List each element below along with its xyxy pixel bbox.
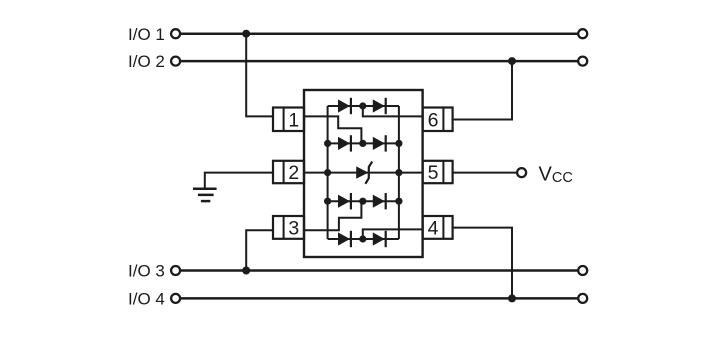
wire pin4 net to row5 bbox=[363, 229, 423, 239]
terminal I/O4 left bbox=[171, 294, 180, 303]
diode D7 bbox=[338, 231, 351, 247]
node GND rail row3 bbox=[324, 169, 331, 176]
pin 2 bbox=[273, 161, 304, 184]
terminal I/O4 right bbox=[578, 294, 587, 303]
svg-text:1: 1 bbox=[288, 109, 299, 131]
node row1 middle bbox=[359, 102, 366, 109]
wire pin 6 to I/O2 bbox=[453, 61, 512, 119]
node I/O3 junction bbox=[242, 267, 250, 275]
wire row1 bbox=[328, 105, 399, 107]
terminal I/O1 right bbox=[578, 29, 587, 38]
terminal I/O1 left bbox=[171, 29, 180, 38]
wire I/O3 line bbox=[181, 269, 578, 272]
diode D2 bbox=[373, 98, 386, 114]
diode D5 bbox=[338, 193, 351, 209]
pin 3 bbox=[273, 216, 304, 239]
svg-text:5: 5 bbox=[428, 162, 439, 184]
terminal I/O2 right bbox=[578, 57, 587, 66]
pin 6 bbox=[423, 108, 453, 132]
node I/O1 junction bbox=[242, 30, 250, 38]
node GND rail row2 bbox=[324, 140, 331, 147]
svg-text:6: 6 bbox=[428, 109, 439, 131]
svg-text:VCC: VCC bbox=[539, 164, 573, 186]
IC U1 body bbox=[304, 90, 423, 257]
svg-text:I/O 3: I/O 3 bbox=[128, 262, 165, 281]
node VCC rail row4 bbox=[395, 198, 402, 205]
node VCC rail row2 bbox=[395, 140, 402, 147]
node VCC rail row3 bbox=[395, 169, 402, 176]
wire row3 zener row bbox=[304, 172, 423, 174]
wire pin 2 to ground bbox=[205, 173, 273, 188]
node row2 middle bbox=[359, 140, 366, 147]
wire pin1 net to row2 bbox=[304, 116, 361, 143]
wire GND rail bbox=[327, 106, 329, 239]
svg-text:4: 4 bbox=[428, 217, 439, 239]
wire pin 4 to I/O4 bbox=[453, 228, 512, 299]
wire pin 5 to VCC bbox=[453, 172, 518, 174]
wire pin3 net to row4 bbox=[304, 201, 361, 230]
wire I/O1 line bbox=[181, 32, 578, 35]
wire I/O1 to pin 1 bbox=[246, 34, 273, 117]
wire row5 bbox=[328, 238, 399, 240]
wire row4 bbox=[328, 200, 399, 202]
node row4 middle bbox=[359, 198, 366, 205]
diode D3 bbox=[338, 135, 351, 151]
svg-text:3: 3 bbox=[288, 217, 299, 239]
wire VCC rail bbox=[398, 106, 400, 239]
diode D8 bbox=[373, 231, 386, 247]
diode D6 bbox=[373, 193, 386, 209]
wire row2 bbox=[328, 142, 399, 144]
terminal I/O2 left bbox=[171, 57, 180, 66]
diode D1 bbox=[338, 98, 351, 114]
svg-text:I/O 4: I/O 4 bbox=[128, 290, 165, 309]
node I/O2 junction bbox=[508, 57, 516, 65]
node GND rail row4 bbox=[324, 198, 331, 205]
pin 4 bbox=[423, 216, 453, 239]
wire I/O3 to pin 3 bbox=[246, 230, 273, 270]
wire I/O2 line bbox=[181, 60, 578, 63]
pin 1 bbox=[273, 108, 304, 132]
terminal VCC bbox=[517, 168, 526, 177]
node I/O4 junction bbox=[508, 294, 516, 302]
svg-text:2: 2 bbox=[288, 162, 299, 184]
wire I/O4 line bbox=[181, 297, 578, 300]
zener Z1 bbox=[356, 162, 372, 184]
svg-text:I/O 2: I/O 2 bbox=[128, 52, 165, 71]
terminal I/O3 left bbox=[171, 266, 180, 275]
node row5 middle bbox=[359, 235, 366, 242]
pin 5 bbox=[423, 161, 453, 184]
svg-text:I/O 1: I/O 1 bbox=[128, 25, 165, 44]
ground bbox=[193, 189, 217, 201]
diode D4 bbox=[373, 135, 386, 151]
terminal I/O3 right bbox=[578, 266, 587, 275]
wire pin6 net to row1 bbox=[363, 106, 423, 116]
